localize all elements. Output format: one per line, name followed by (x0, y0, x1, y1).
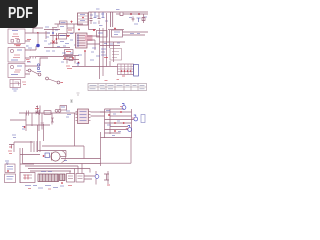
switch S2 (46, 77, 63, 84)
junction dots cluster (108, 114, 110, 116)
title block text (90, 85, 145, 89)
fuse link between (14, 45, 21, 46)
blue stub mark (27, 48, 32, 62)
red pair mark (66, 66, 72, 69)
small box B3 (65, 50, 74, 55)
wire bus line upper (61, 158, 101, 160)
fuse F1 on rail (60, 21, 68, 24)
wire right from blocks (84, 176, 95, 179)
title block frame (88, 84, 147, 91)
IC U20 (76, 109, 91, 124)
label above connector (41, 171, 52, 173)
antenna node A3 (128, 126, 132, 132)
wire branch verticals (42, 113, 75, 146)
capacitor C23 (43, 153, 50, 158)
rectifier BR1 box (112, 28, 123, 37)
labels above rail (96, 8, 120, 11)
junction dot (138, 13, 140, 15)
resistor R2 (142, 14, 145, 23)
connector shell right faint (141, 115, 145, 123)
regulator box U2 (110, 49, 122, 61)
right cluster verticals (105, 109, 132, 138)
page number note (70, 100, 73, 103)
sheet note (77, 93, 80, 95)
blue mark left (12, 135, 16, 138)
gnd symbol left (5, 161, 9, 165)
terminal block dark (60, 174, 66, 181)
junction dot (122, 75, 125, 77)
terminal box TB3 (76, 174, 84, 183)
wire connect (100, 42, 125, 76)
terminal box TB2 (67, 174, 75, 183)
wire left pair vertical (20, 148, 23, 183)
capacitor C1 bank on rail (90, 12, 105, 24)
junction dot (84, 50, 86, 52)
junction dot (78, 29, 80, 31)
label blue pair (66, 111, 71, 117)
capacitor C19 above rail (36, 106, 40, 113)
wire rail2 (108, 29, 124, 31)
wire IC to cluster (91, 112, 105, 116)
label blue (130, 33, 140, 35)
component right small (104, 171, 110, 185)
wire bus bends (70, 164, 90, 174)
bridge block BR0 (78, 13, 89, 25)
junction dots (52, 32, 54, 34)
junction dot (61, 182, 63, 184)
blue labels under IC (61, 53, 82, 62)
node highlight (36, 44, 40, 48)
diode D5 red diagonal (52, 41, 55, 44)
wire drop (89, 12, 97, 30)
connector J1 shell (134, 65, 139, 77)
comb ticks (29, 57, 36, 59)
gnd labels cluster (101, 49, 108, 58)
transformer T1 tertiary box (8, 64, 25, 78)
label blue (64, 160, 67, 162)
connector J20 hatched (38, 174, 59, 182)
wire stubs from boxes (25, 33, 33, 74)
bottom red marks (28, 186, 72, 190)
diode D20 (35, 109, 40, 115)
wire drop (83, 146, 85, 159)
wire box links (30, 28, 50, 66)
capacitor C22 (41, 123, 45, 125)
capacitor C20 (27, 111, 29, 116)
wire page2 left vertical (25, 113, 27, 131)
red tick (70, 21, 72, 24)
IC U1 connector block (76, 33, 88, 48)
value labels blue (90, 14, 108, 26)
zener D21 (51, 118, 54, 122)
capacitor C8 (77, 62, 80, 66)
label bits right (129, 17, 147, 24)
inductor L20 (55, 109, 61, 112)
terminal box TB1 (20, 173, 35, 183)
wire mid lines (14, 124, 50, 152)
transformer T1 secondary box (8, 48, 25, 63)
resistor R21 (44, 111, 51, 115)
component small left (9, 145, 14, 149)
center cluster: horizontal wires (44, 30, 70, 48)
opamp U21 (51, 151, 66, 163)
inductor L1 (116, 13, 127, 16)
wire enclosure (101, 132, 132, 166)
transformer T2 core (111, 12, 113, 27)
relay K1 box (10, 80, 26, 92)
center cluster: vertical wires (46, 28, 57, 48)
wire drops from rail (58, 24, 74, 28)
component above rail (60, 106, 67, 111)
wire mid horizontal (72, 66, 107, 68)
wire top-right rail (89, 11, 149, 13)
capacitor C21 (22, 127, 25, 130)
transistor Q23 (95, 171, 99, 185)
left bottom small boxes (5, 164, 16, 183)
wire stub left (52, 27, 57, 29)
wire tick verticals (31, 141, 40, 152)
switch S1 (26, 69, 41, 76)
junction dot (130, 13, 132, 15)
blue circle pair small (37, 64, 41, 72)
wire y56 (36, 56, 73, 58)
cluster blue dashes (106, 111, 121, 136)
small box B2 (67, 28, 74, 33)
wire to node (37, 33, 39, 44)
junction dot (24, 126, 26, 128)
wire to right edge (127, 13, 148, 15)
wire to right edge pair (123, 32, 149, 35)
small box B1 (59, 34, 67, 40)
snubber box (97, 31, 108, 38)
wire left branch (10, 113, 39, 131)
label dashes extra (46, 30, 77, 47)
transformer T1 primary box (8, 27, 25, 43)
junction dot (93, 29, 95, 31)
diode D1 (132, 17, 141, 23)
cluster blue labels (44, 27, 69, 52)
wire bus lines (23, 164, 101, 172)
wire stub (84, 51, 86, 66)
wire into connector (107, 61, 118, 67)
wire above opamp (38, 151, 66, 157)
label marks (8, 151, 12, 154)
wire rail y146 (42, 145, 84, 147)
label block pink (85, 35, 93, 41)
antenna node A2 (134, 115, 138, 121)
PDF badge (0, 0, 38, 28)
red bits left (26, 60, 30, 62)
wire IC right (87, 36, 100, 50)
antenna node A1 (122, 104, 126, 110)
bottom text labels (25, 186, 64, 189)
right cluster horizontals (100, 109, 134, 138)
wire horizontals left (20, 155, 40, 165)
red stub mark (27, 39, 31, 41)
red ticks at nodes (120, 107, 135, 129)
wire top-left rail (55, 23, 84, 25)
wire bus verticals (100, 13, 110, 79)
connector J1 hatched (118, 64, 134, 75)
small marks near bus (90, 48, 100, 60)
cluster under IC: resistors (63, 56, 79, 64)
wire page2 top rail (19, 112, 78, 114)
revision mark (105, 80, 120, 81)
